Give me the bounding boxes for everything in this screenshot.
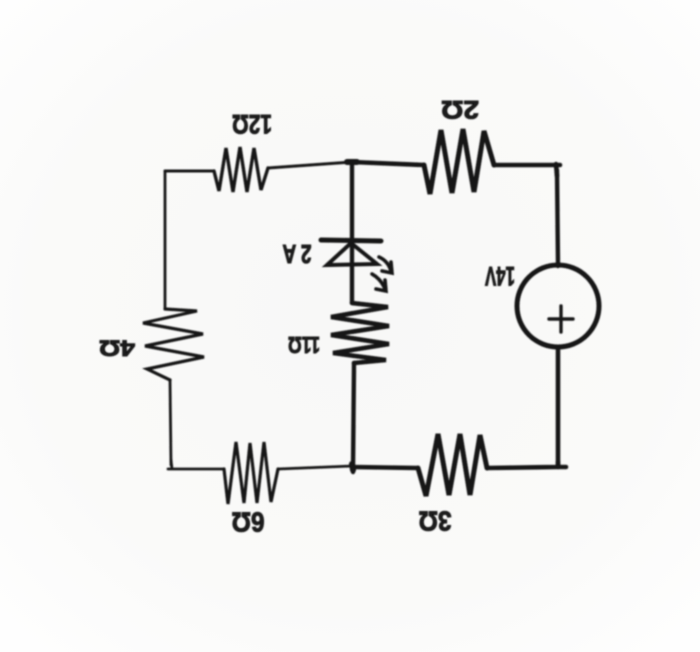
label 4Ω [99,336,135,361]
svg-text:14V: 14V [485,261,515,291]
resistor 2Ω zigzag [424,129,494,194]
wire left upper vertical [164,171,167,309]
wire right upper vertical [557,170,558,266]
wire top-left horizontal [165,170,214,173]
label 3Ω [419,506,452,537]
wire centre upper vertical (junction to LED) [350,162,354,240]
resistor 12Ω zigzag [214,147,268,192]
wire bottom left corner [168,460,224,469]
wire right lower vertical [556,347,561,467]
wire left lower vertical [170,380,171,465]
LED D1 triangle [327,243,377,265]
svg-text:4Ω: 4Ω [99,336,135,361]
svg-text:3Ω: 3Ω [419,506,452,537]
svg-text:2 A: 2 A [282,239,311,269]
LED D1 arrow 1 [379,257,392,273]
svg-text:11Ω: 11Ω [288,332,320,358]
svg-text:12Ω: 12Ω [232,109,272,139]
svg-text:6Ω: 6Ω [232,507,265,538]
node centre-top junction [347,159,357,165]
wire centre middle vertical (LED to 11Ω) [350,240,354,303]
wire top right (junction to 2Ω) [352,162,424,165]
LED D1 arrow 2 [372,274,386,291]
voltage source plus sign [549,306,573,332]
wire bottom right corner [487,462,566,468]
wire centre lower vertical (11Ω to bottom) [353,363,354,472]
wire bottom middle-left (junction to 6Ω) [278,466,352,469]
label 12Ω [232,109,272,139]
label 14V [485,261,515,291]
wire top middle (12Ω to centre junction) [268,162,352,168]
node centre-bottom junction [352,464,353,470]
wire bottom middle-right (3Ω to junction) [352,467,418,468]
resistor 11Ω zigzag [331,303,389,363]
resistor 6Ω zigzag [224,442,278,504]
voltage source V1 circle [517,265,599,347]
wire top right corner [494,164,560,176]
LED D1 cathode bar [321,240,381,241]
resistor 4Ω zigzag [143,309,204,380]
svg-text:2Ω: 2Ω [441,95,479,123]
label 2Ω [441,95,479,123]
resistor 3Ω zigzag [418,434,487,496]
label 2 A [282,239,311,269]
label 6Ω [232,507,265,538]
label 11Ω [288,332,320,358]
